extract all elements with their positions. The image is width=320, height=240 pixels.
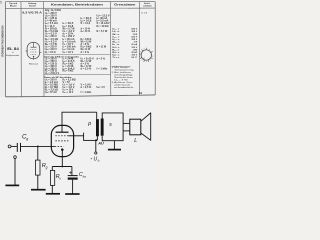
svg-text:Iₐ = 1,2 mA: Iₐ = 1,2 mA [45,81,59,84]
label Cg [22,133,28,141]
column 3 : rows block 3 [45,79,106,94]
svg-text:g: g [26,137,28,141]
svg-text:Allg.: Rₖ=135Ω: Allg.: Rₖ=135Ω [45,9,61,12]
svg-text:61: 61 [139,91,143,95]
plus sign Ck [69,171,71,173]
svg-text:Endpentode: Endpentode [6,54,19,57]
wire Rg to ground [37,175,39,189]
wire Rk to ground [51,185,53,193]
node supply junction [95,139,97,141]
svg-text:Iₐ= 48 mA: Iₐ= 48 mA [97,17,108,20]
wire g2 to supply [69,133,97,141]
table frame [0,0,155,97]
column 2 : heater row [22,11,42,14]
svg-text:Kenndaten, Betriebsdaten: Kenndaten, Betriebsdaten [51,4,104,7]
svg-text:g: g [46,165,48,169]
wire bottom terminal to ground [14,158,16,185]
resistor Rk [50,170,54,185]
svg-text:Iₐ = 49,5: Iₐ = 49,5 [63,22,75,25]
svg-text:RÖHREN·TASCHENBUCH: RÖHREN·TASCHENBUCH [1,25,5,56]
svg-text:Iₐ = 46 mA: Iₐ = 46 mA [63,38,75,41]
svg-text:90 °C: 90 °C [131,57,137,59]
svg-text:p: p [87,121,91,127]
svg-text:Iᵧ = 5,0 mA: Iᵧ = 5,0 mA [63,40,77,43]
column 3 : operating data rows [45,9,110,54]
svg-text:6 1 8: 6 1 8 [141,13,148,15]
svg-text:Uₑ = 4,3 V: Uₑ = 4,3 V [63,30,76,33]
resistor Rg [36,160,41,175]
svg-text:erforderlich.: erforderlich. [114,86,135,89]
wire anode lead to rail [62,112,97,132]
svg-text:ka: ka [83,175,87,179]
wire cathode junction bus [52,166,72,168]
rotated margin text [1,25,5,56]
column 3 : sub header band 1 [44,54,110,58]
transformer primary winding [96,119,99,136]
svg-text:Wₒ= 4,2 W: Wₒ= 4,2 W [81,40,93,43]
svg-text:Iᵧ= 5,5 mA: Iᵧ= 5,5 mA [97,20,109,23]
wire junction to Rg [37,146,39,160]
svg-text:Rᵢ = 40 kΩ: Rᵢ = 40 kΩ [97,25,109,28]
svg-text:Rₐₐ= 8 kΩ: Rₐₐ= 8 kΩ [63,71,74,73]
column 4 : limit data rows [112,29,138,60]
svg-text:S = 11,3: S = 11,3 [81,23,91,25]
svg-text:Grenzdaten: Grenzdaten [114,4,136,7]
column 1 : type EL 84 [6,47,19,57]
ground under secondary [108,149,121,151]
wire to Ck [71,167,73,176]
svg-text:f = 1 kHz: f = 1 kHz [81,92,93,94]
svg-text:Tₖₒₗ =: Tₖₒₗ = [112,56,120,59]
label L speaker [134,138,137,144]
wire cathode lead [61,151,63,167]
ground under Ck [65,193,79,195]
svg-text:Iₐ = 49,5: Iₐ = 49,5 [81,17,93,20]
wire supply drop [95,140,97,152]
wire to Rk [51,167,53,171]
svg-text:f = 1 kHz: f = 1 kHz [97,68,109,70]
node grid junction [37,145,39,147]
tube V1 envelope [51,125,73,156]
label AU transformer [97,141,104,146]
wire primary bottom [96,136,98,140]
wire speaker stubs [123,123,130,130]
label +Ub [90,156,99,162]
svg-text:L: L [134,138,137,144]
svg-text:d = 2,5 %: d = 2,5 % [81,68,92,70]
svg-text:schaltbild: schaltbild [143,4,151,7]
svg-text:Rₐ = 4,5 kΩ: Rₐ = 4,5 kΩ [45,38,58,41]
svg-text:Iᵧ₂= 11 mA: Iᵧ₂= 11 mA [63,48,75,51]
svg-text:Uₕₖ =: Uₕₖ = [112,54,120,57]
column 3 : rows block 2 [45,58,109,76]
page corner mark [0,1,2,5]
capacitor Cg plates [17,143,20,152]
input terminal bottom [14,156,17,159]
svg-text:6,3 V/0,76 A: 6,3 V/0,76 A [22,11,42,14]
column 2 : tube outline diagram [26,42,42,65]
svg-text:N = 11 W: N = 11 W [97,47,107,49]
svg-text:b: b [98,159,100,163]
wire secondary loop [102,113,123,141]
ground under Rg [31,189,46,191]
node cathode junction [61,166,63,168]
svg-text:d = 3 %: d = 3 % [97,59,105,61]
column 3 : sub header band 2 [44,75,110,79]
svg-text:5: 5 [0,1,2,5]
svg-text:Sockel: Sockel [29,5,36,7]
svg-text:Iᵧ₂= 5,5 mA: Iᵧ₂= 5,5 mA [45,22,59,25]
tube cathode dot [61,148,64,151]
svg-text:Bauart: Bauart [10,4,17,7]
transformer secondary winding [101,119,104,136]
label s secondary [109,122,112,128]
speaker driver box [130,119,141,135]
svg-text:Uₐ∼= 10 V: Uₐ∼= 10 V [63,92,74,94]
column 5 : socket basing diagram [139,48,153,62]
wire terminal to Cg [11,145,17,147]
svg-text:65 mA: 65 mA [131,43,137,46]
column 5 : figure number [141,13,148,15]
svg-text:AÜ: AÜ [97,141,104,146]
speaker cone [141,113,151,140]
label Rg [42,163,48,170]
svg-text:Uₑ = 4,3 V: Uₑ = 4,3 V [45,40,58,43]
tube anode bar [56,131,69,133]
wire Ck to ground [72,180,74,194]
column 4 : footnotes [112,66,136,89]
svg-text:EL 84: EL 84 [7,47,19,51]
svg-text:d₃= 10 %: d₃= 10 % [81,31,91,33]
label Rk [56,174,62,181]
label Ck [79,172,86,178]
label p primary [87,121,91,127]
capacitor Ck plates [68,176,78,180]
page number 61 [139,91,143,95]
svg-text:Iₐ = 100 mA: Iₐ = 100 mA [63,46,77,49]
tube grid g2 dashes [55,135,69,137]
svg-text:N = 5,7 W: N = 5,7 W [97,31,109,33]
column 4 : rule above footnotes [112,65,131,67]
wire secondary to ground [113,141,115,150]
svg-text:S = 10 mA/V: S = 10 mA/V [97,22,110,25]
svg-text:Uₐ= 4 V: Uₐ= 4 V [97,86,106,89]
svg-text:d = 2,5 %: d = 2,5 % [81,87,92,89]
svg-text:d = 3 %: d = 3 % [81,52,89,54]
ground under input [5,184,19,186]
table headers [9,3,151,7]
ground under Rk [46,193,60,195]
svg-text:Rₖ = 97 Ω: Rₖ = 97 Ω [45,52,56,54]
tube grid g3 dashes [55,140,69,142]
svg-text:Uₑ = 10 V: Uₑ = 10 V [63,52,74,54]
svg-text:Uₑₑ= 57 mV: Uₑₑ= 57 mV [45,92,57,94]
svg-text:Iₐ = 48 mA: Iₐ = 48 mA [45,20,57,23]
svg-text:Noval: Noval [29,63,39,65]
wire Cg to grid [21,145,55,147]
input terminal top [8,145,11,148]
tube grid g1 dashes [55,145,64,147]
terminal +Ub [95,152,97,154]
